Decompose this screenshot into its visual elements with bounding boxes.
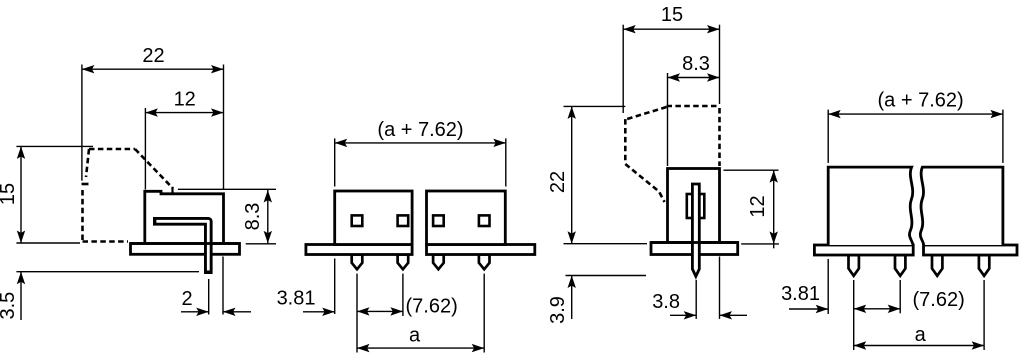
flange (board) view1	[131, 244, 240, 255]
dimension (a + 7.62) view2	[335, 142, 506, 144]
extension line pin2 view2	[402, 274, 404, 316]
svg-text:3.9: 3.9	[547, 296, 569, 324]
pin 1 front view4	[849, 255, 859, 276]
extension line body left edge view2	[334, 259, 336, 315]
extension line bottom of 12 view3	[741, 243, 779, 245]
right base strip view4	[924, 245, 1018, 255]
dashed plug outline top edge	[89, 148, 135, 151]
extension line bottom of 22 view3	[564, 243, 648, 245]
pin 4 front view4	[979, 255, 989, 276]
extension line left view2 top	[334, 138, 336, 186]
extension line left of 15 view3	[622, 25, 624, 113]
svg-text:a: a	[915, 324, 927, 346]
dimension 8.3 view1	[267, 190, 269, 243]
dashed plug bottom edge	[83, 240, 129, 243]
svg-text:3.8: 3.8	[652, 291, 680, 313]
svg-text:22: 22	[547, 171, 569, 193]
extension line body right below view3	[719, 257, 721, 319]
extension line pin tip view3	[566, 275, 647, 277]
nose tick on body top	[171, 187, 173, 194]
svg-text:22: 22	[142, 45, 164, 67]
pin 4 front view2	[479, 255, 490, 270]
contact collar view3	[687, 194, 705, 218]
svg-text:a: a	[409, 325, 421, 347]
pin 1 front view2	[352, 255, 363, 270]
dashed plug right edge view3	[718, 108, 721, 166]
dimension 8.3 view3	[668, 77, 720, 79]
solder pin view3	[692, 184, 699, 276]
connector body side view	[145, 191, 224, 244]
dashed plug back slope	[86, 149, 89, 177]
svg-text:3.5: 3.5	[0, 292, 19, 320]
svg-text:8.3: 8.3	[242, 203, 264, 231]
extension line top of 15	[16, 145, 93, 147]
svg-text:(a + 7.62): (a + 7.62)	[377, 119, 463, 141]
dimension 3.9 view3	[571, 276, 573, 320]
extension line pin center view1	[208, 279, 210, 315]
pin 3 front view2	[433, 255, 444, 270]
flange view3	[651, 243, 738, 255]
left housing with break line view4	[828, 167, 913, 245]
extension line bottom of 8.3 view1	[246, 243, 276, 245]
svg-text:8.3: 8.3	[682, 53, 710, 75]
dashed plug top edge view3	[667, 105, 718, 108]
svg-text:(a + 7.62): (a + 7.62)	[878, 90, 964, 112]
dashed plug nose slope	[135, 149, 173, 189]
extension line left of 22	[81, 65, 83, 181]
extension line body left edge view4	[827, 259, 829, 314]
svg-text:3.81: 3.81	[277, 288, 316, 310]
pin 3 front view4	[932, 255, 942, 276]
dashed plug step	[82, 183, 89, 186]
extension line top of 8.3 view1	[178, 188, 276, 190]
left base strip view2	[306, 245, 412, 255]
pin 2 front view4	[895, 255, 905, 276]
extension line right of 22/12	[223, 65, 225, 190]
svg-text:12: 12	[174, 89, 196, 111]
dimension 22 view1	[82, 68, 224, 70]
left housing view2	[335, 191, 412, 245]
extension line pin4 view2	[483, 274, 485, 353]
extension line right view4 top	[1002, 110, 1004, 163]
pin cross-section square 3	[433, 215, 444, 226]
extension line pin bottom view1	[16, 271, 199, 273]
extension line bottom of 15	[16, 242, 80, 244]
svg-text:3.81: 3.81	[781, 283, 820, 305]
extension line right view2 top	[505, 138, 507, 186]
extension line pin4 view4	[983, 280, 985, 350]
dimension 12 view3	[773, 170, 775, 244]
pin cross-section square 1	[352, 215, 363, 226]
extension line pin1 view2	[356, 274, 358, 353]
pin cross-section square 2	[398, 215, 409, 226]
dimension 3.81 view2	[303, 311, 335, 313]
dimension 3.81 view4	[789, 308, 828, 310]
dimension (a + 7.62) view4	[828, 113, 1003, 115]
svg-text:2: 2	[181, 288, 192, 310]
dashed plug nose slope view3	[625, 164, 664, 202]
dimension (7.62) view4	[854, 308, 901, 310]
dimension 3.8 view3	[670, 314, 696, 316]
connector body view3	[668, 169, 720, 243]
right base strip view2	[427, 245, 535, 255]
flange top line redrawn view3	[651, 241, 738, 244]
svg-text:(7.62): (7.62)	[913, 289, 965, 311]
dimension 22 view3	[571, 106, 573, 243]
extension line pin1 view4	[853, 280, 855, 350]
dimension 2 view1	[181, 311, 209, 313]
right housing with break line view4	[920, 167, 1003, 245]
extension line right of 15/8.3 view3	[719, 25, 721, 104]
extension line pin center below view3	[695, 280, 697, 319]
svg-text:15: 15	[0, 183, 19, 205]
dimension a view2	[357, 347, 484, 349]
dimension 15 view3	[623, 28, 719, 30]
dimension (7.62) view2	[357, 310, 403, 312]
svg-text:12: 12	[747, 195, 769, 217]
right housing view2	[427, 191, 506, 245]
dimension a view4	[854, 345, 984, 347]
dashed plug left slope view3	[627, 107, 667, 119]
extension line left of 8.3 view3	[667, 73, 669, 166]
dashed plug left edge view3	[624, 119, 627, 163]
dimension 12 view1	[145, 112, 223, 114]
extension line pin2 view4	[899, 280, 901, 313]
pin 2 front view2	[398, 255, 409, 270]
svg-text:(7.62): (7.62)	[406, 296, 458, 318]
extension line left view4 top	[827, 110, 829, 163]
dimension 3.5 view1	[20, 272, 22, 320]
dashed plug back edge	[81, 190, 84, 241]
svg-text:15: 15	[661, 4, 683, 26]
extension line top of 22 view3	[564, 105, 626, 107]
flange top line redrawn view1	[131, 242, 240, 245]
dimension 15 view1	[20, 146, 22, 243]
extension line top of 12 view3	[724, 169, 779, 171]
solder pin L-shape view1	[153, 221, 208, 274]
pin cross-section square 4	[479, 215, 490, 226]
extension line left of 12	[144, 108, 146, 190]
left base strip view4	[814, 245, 913, 255]
extension line body face view1	[222, 257, 224, 315]
